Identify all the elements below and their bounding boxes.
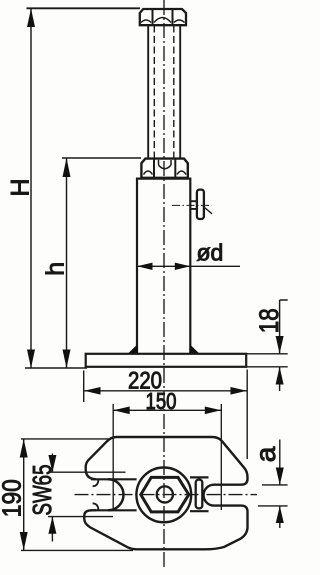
dimension 150 extension lines [113,404,221,510]
dimension H arrow bottom [27,350,35,369]
hex nut top outline [140,9,186,25]
dimension SW65 line [51,454,53,542]
dimension 18 arrow bottom [276,367,284,385]
clamp screw tip diagonal [205,208,213,214]
dimension 150 line [113,409,221,411]
hex nut top face lines [153,10,173,26]
plan left slot lip hooks [93,480,99,511]
hex nut lower face lines [154,159,175,177]
svg-text:a: a [250,446,281,462]
dimension H extension line top [27,7,141,9]
hex nut top chamfer arcs [141,18,185,23]
dimension 190 arrow bottom [20,532,28,550]
dimension 150 arrow right [205,407,221,415]
dimension a arrow top [276,468,284,485]
svg-text:H: H [7,178,35,196]
dimension od arrow left [137,263,153,270]
dimension od arrow right [175,263,191,270]
weld fillet right [190,344,199,353]
tube body [137,179,190,354]
plan right slot channel lines [190,477,209,511]
svg-text:18: 18 [254,308,284,333]
svg-text:SW65: SW65 [27,465,57,516]
plan left slot U arc [108,479,124,510]
threaded spindle root lines dashed [154,26,174,159]
hex nut lower outline [141,159,187,178]
centerline vertical main axis [163,0,165,570]
svg-text:150: 150 [146,388,177,414]
plan tube circle [136,468,191,523]
dimension h arrow top [63,158,71,177]
dimension h arrow bottom [63,350,71,369]
dimension a arrow bottom [276,506,284,523]
plan view base plate outline [84,437,247,549]
clamp screw axis centerline [172,204,212,206]
dimension SW65 arrow top [48,455,56,472]
dimension 18 line [279,300,281,391]
plan centerline horizontal [75,494,258,496]
dimension H line [30,9,32,369]
svg-text:190: 190 [0,479,26,517]
dimension H arrow top [27,9,35,28]
dimension 220 line [84,390,247,392]
dimension 190 line [23,439,25,550]
plan hex nut [141,477,189,512]
svg-text:h: h [42,262,70,276]
weld fillet left [129,344,138,353]
plan left slot channel lines [91,479,137,510]
dimension a line [279,440,281,529]
dimension 190 arrow top [20,439,28,457]
dimension SW65 arrow bottom [48,517,56,534]
base plate [86,354,247,367]
dimension h extension line top [62,157,141,159]
plan clamp screw slot [196,480,203,509]
dimension 150 arrow left [113,407,129,415]
threaded spindle outer lines [148,26,180,159]
dimension 220 arrow left [84,387,100,395]
clamp screw knob [197,190,204,219]
dimension h line [66,158,68,368]
clamp screw shaft [190,201,197,209]
dimension 220 extension lines [84,370,248,460]
dimension 18 arrow top [276,336,284,354]
dimension 190 extension lines [21,439,133,551]
extension line plate bottom left [25,367,87,369]
dimension a extension lines [258,485,288,506]
dimension od line [137,265,240,267]
dimension SW65 extension lines [48,472,126,516]
hex nut lower chamfer arcs [144,160,187,175]
dimension 18 extension lines [246,300,288,367]
dimension 220 arrow right [231,387,247,395]
plan spindle circle [157,486,173,502]
svg-text:ød: ød [197,240,224,266]
